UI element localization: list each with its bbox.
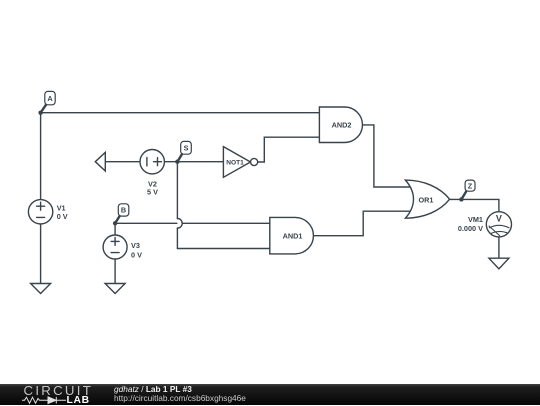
wire S down lower segment to AND1 lower input xyxy=(177,228,269,248)
voltage source V1 xyxy=(28,200,52,224)
circuitlab logo xyxy=(24,383,94,398)
svg-text:S: S xyxy=(184,144,189,153)
node B junction dot xyxy=(113,221,117,225)
svg-text:AND1: AND1 xyxy=(283,232,303,241)
ground (V1) xyxy=(31,284,51,294)
wire OR1 output to node Z to VM1 xyxy=(450,199,499,211)
ground (V3) xyxy=(105,284,125,294)
node A junction dot xyxy=(38,111,42,115)
footer bar xyxy=(0,384,540,405)
svg-text:V1: V1 xyxy=(57,203,66,212)
wire A to AND2 upper input xyxy=(41,112,320,114)
svg-text:B: B xyxy=(121,206,126,215)
logo squiggle (resistor + diode) xyxy=(22,396,68,405)
inverter NOT1 xyxy=(223,147,257,178)
svg-text:V: V xyxy=(496,214,502,224)
wire VM1 to ground xyxy=(498,237,500,258)
svg-text:0 V: 0 V xyxy=(57,212,68,221)
svg-text:VM1: VM1 xyxy=(468,215,483,224)
wire V2 to NOT1 input xyxy=(164,161,223,163)
svg-text:Z: Z xyxy=(468,182,473,191)
svg-text:AND2: AND2 xyxy=(332,121,352,130)
node A flag xyxy=(41,91,56,112)
svg-text:V3: V3 xyxy=(131,241,140,250)
svg-text:A: A xyxy=(47,94,53,103)
and gate AND2 xyxy=(319,107,362,143)
svg-text:0.000 V: 0.000 V xyxy=(458,224,483,233)
ground (VM1) xyxy=(489,258,509,269)
and gate AND1 xyxy=(270,217,314,254)
wire S down upper segment xyxy=(176,162,178,219)
wire V3 to ground xyxy=(114,259,116,284)
svg-text:NOT1: NOT1 xyxy=(226,159,244,166)
wire A down to V1 xyxy=(40,113,42,200)
node Z junction dot xyxy=(459,197,463,201)
node B flag xyxy=(115,204,129,224)
svg-text:5 V: 5 V xyxy=(147,188,158,197)
footer text xyxy=(114,384,192,394)
wire V1 to ground xyxy=(40,224,42,284)
node S junction dot xyxy=(175,160,179,164)
wire B down to V3 xyxy=(114,223,116,235)
voltage source V3 xyxy=(103,235,127,259)
wire AND2 output to OR1 upper input xyxy=(363,125,412,187)
node S flag xyxy=(177,141,191,161)
wire B to AND1 upper input xyxy=(115,222,270,224)
port arrow (left) xyxy=(95,152,105,171)
voltage source V2 xyxy=(140,150,164,174)
wire AND1 output to OR1 lower input xyxy=(314,211,412,236)
wire arrow to V2 xyxy=(105,161,140,163)
voltmeter VM1 xyxy=(486,212,511,237)
wire NOT1 output to AND2 lower input xyxy=(258,137,320,162)
svg-text:OR1: OR1 xyxy=(418,196,433,205)
or gate OR1 xyxy=(405,180,449,218)
node Z flag xyxy=(461,180,475,199)
svg-text:0 V: 0 V xyxy=(131,251,142,260)
wire hop over B wire xyxy=(177,219,182,229)
